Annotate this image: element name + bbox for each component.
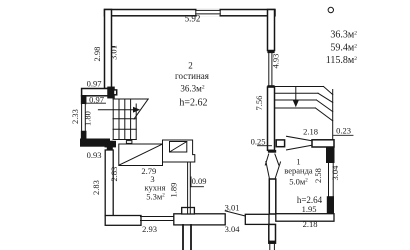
stove inner: [170, 142, 187, 153]
dim line 0.23: [334, 134, 354, 136]
stair left arrow head: [133, 107, 140, 113]
veranda wall cap bottom (black): [269, 241, 276, 244]
svg-text:4.93: 4.93: [271, 54, 281, 69]
niche bottom wall (black): [80, 139, 110, 147]
svg-text:гостиная: гостиная: [175, 71, 209, 81]
svg-text:2.18: 2.18: [303, 219, 318, 229]
svg-text:веранда: веранда: [284, 166, 313, 176]
stair left cut diagonal: [134, 99, 148, 119]
svg-text:2.98: 2.98: [92, 47, 102, 62]
svg-text:2.83: 2.83: [109, 167, 119, 182]
dimension labels vertical: [70, 45, 340, 197]
bay top wall: [82, 89, 112, 96]
room label veranda: [284, 157, 322, 215]
stair left arrow tail: [98, 109, 133, 111]
north circle: [328, 7, 333, 12]
svg-text:3.04: 3.04: [330, 165, 340, 181]
svg-text:0.93: 0.93: [87, 150, 102, 160]
dim line 0.97 lower: [87, 102, 106, 104]
bay wall pier top (black): [82, 96, 86, 104]
dimension labels horizontal: [87, 14, 351, 235]
veranda 0.25 stub wall: [276, 140, 284, 147]
svg-text:0.23: 0.23: [336, 126, 351, 136]
sink diagonal: [119, 144, 162, 165]
junction pier (black): [108, 87, 114, 97]
svg-text:0.97: 0.97: [89, 94, 104, 104]
cross junction (black): [105, 141, 117, 148]
stair left top line: [113, 98, 148, 100]
svg-text:59.4м2: 59.4м2: [330, 42, 357, 53]
stair right edge: [332, 90, 334, 140]
kitchen east wall: [187, 162, 189, 214]
svg-text:3.01: 3.01: [225, 203, 240, 213]
window top (break in band): [197, 9, 220, 17]
veranda left wall below bottom: [269, 224, 276, 243]
svg-text:7.56: 7.56: [254, 96, 264, 111]
room label kitchen: [145, 174, 166, 202]
svg-text:1.80: 1.80: [83, 111, 93, 126]
svg-text:2: 2: [188, 61, 193, 71]
window right (4.93): [268, 53, 270, 87]
svg-text:0.09: 0.09: [192, 176, 207, 186]
dim line 0.25: [258, 145, 272, 147]
veranda right window wall: [328, 163, 330, 196]
wall tab kitchen: [126, 141, 131, 144]
svg-text:36.3м2: 36.3м2: [180, 83, 204, 93]
svg-text:2.93: 2.93: [142, 224, 157, 234]
veranda left wall lower: [269, 179, 276, 214]
dim leader 0.09: [190, 177, 192, 187]
door leaf diagonal: [225, 211, 245, 216]
wall right upper segment: [268, 10, 275, 51]
stove inner diagonal: [170, 142, 187, 153]
veranda top wall: [312, 140, 334, 147]
wall bottom band mid: [174, 214, 225, 225]
wall cap (black): [268, 150, 276, 153]
veranda steps below: [269, 243, 271, 250]
wall right mid band: [268, 87, 275, 150]
porch wall left: [182, 225, 184, 250]
svg-text:2.58: 2.58: [313, 168, 323, 183]
cross stub down (black): [107, 141, 113, 152]
stair right treads: [275, 86, 324, 88]
svg-text:3.01: 3.01: [109, 45, 119, 60]
svg-text:1.95: 1.95: [302, 204, 317, 214]
svg-text:0.25: 0.25: [251, 137, 266, 147]
svg-text:3.04: 3.04: [225, 224, 241, 234]
svg-text:1.89: 1.89: [169, 183, 179, 198]
stair left flight lines: [113, 118, 136, 120]
stove outline: [163, 140, 195, 162]
bay wall pier bottom (black): [82, 132, 86, 139]
wall left upper: [105, 10, 112, 89]
room label living: [175, 61, 209, 109]
svg-text:2.18: 2.18: [303, 127, 318, 137]
wall cap right (black): [267, 51, 274, 54]
wall left lower: [105, 150, 113, 216]
wall bottom band left corner: [105, 216, 141, 226]
stair right arrow: [295, 87, 297, 102]
area totals: [326, 30, 357, 66]
svg-text:2.79: 2.79: [141, 166, 156, 176]
bay left window wall: [82, 104, 86, 132]
stair right winder diagonals: [324, 87, 333, 95]
wall stub up at porch: [182, 208, 195, 215]
svg-text:2.83: 2.83: [91, 180, 101, 195]
splayed window lower line: [287, 145, 313, 150]
sill tick: [112, 46, 116, 48]
wall cap right mid (black): [267, 85, 274, 87]
veranda pier top-right (black): [326, 147, 335, 163]
svg-text:115.8м2: 115.8м2: [326, 55, 357, 66]
kitchen sink counter: [119, 144, 163, 166]
junction stub: [114, 90, 117, 95]
stair left treads vertical: [112, 99, 114, 140]
svg-text:5.92: 5.92: [185, 14, 201, 24]
svg-text:36.3м2: 36.3м2: [330, 30, 357, 41]
svg-text:0.97: 0.97: [87, 78, 102, 88]
wall top band: [105, 10, 276, 16]
veranda pier bottom-right (black): [327, 196, 334, 214]
wall bottom band right: [245, 214, 269, 224]
svg-text:2.33: 2.33: [70, 109, 80, 124]
svg-text:h=2.62: h=2.62: [179, 97, 207, 108]
veranda door splay lines: [265, 154, 268, 165]
kitchen window bottom (2.93): [141, 216, 175, 218]
veranda bottom wall: [276, 214, 334, 222]
splayed window upper line: [287, 136, 313, 141]
porch wall right: [190, 225, 192, 250]
